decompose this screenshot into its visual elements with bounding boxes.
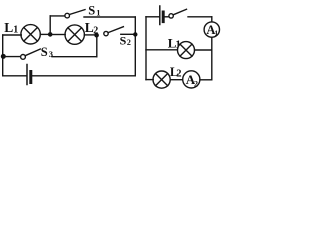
battery short plate (left circuit) — [29, 72, 32, 83]
label S3 — [41, 45, 53, 59]
svg-text:S: S — [41, 45, 48, 59]
wire: lamp L1 to right vertical — [195, 49, 212, 51]
wire: riser J1 up to top wire — [49, 16, 51, 35]
svg-text:1: 1 — [214, 28, 218, 37]
wire: L1 row from left edge to lamp L1 — [3, 34, 22, 36]
wire: left edge dot to S3 pivot — [3, 56, 20, 58]
switch S3 pivot — [21, 55, 26, 60]
lamp L2 — [65, 25, 84, 44]
switch S2 pivot — [104, 31, 108, 35]
label L2 — [85, 20, 98, 36]
node: S3 tap on left edge (junction dot) — [1, 54, 6, 59]
svg-text:2: 2 — [176, 68, 181, 79]
switch S3 blade — [25, 49, 40, 56]
label S2 — [120, 33, 131, 47]
wire: S3 to drop of J2 — [52, 56, 97, 58]
battery long plate (left circuit) — [26, 65, 28, 85]
wire: A1 down to L1 row — [211, 37, 213, 49]
wire: lamp L1 to node J1 — [40, 33, 49, 35]
label L2 (right circuit) — [170, 65, 182, 80]
svg-text:S: S — [120, 33, 127, 47]
wire: drop from node J2 down to S3 wire — [96, 35, 98, 57]
svg-text:1: 1 — [13, 24, 18, 35]
ammeter A2 — [183, 71, 200, 89]
lamp L1 — [21, 25, 40, 44]
lamp L1 (right circuit) — [178, 42, 195, 59]
switch S2 blade — [108, 27, 123, 33]
switch S pivot (right circuit) — [169, 14, 173, 18]
wire: node J1 to lamp L2 — [52, 34, 66, 36]
node: S2 stub to right edge (junction dot) — [133, 32, 137, 36]
battery long plate (right circuit) — [159, 6, 161, 25]
label L1 — [4, 20, 18, 36]
label L1 (right circuit) — [168, 35, 181, 50]
svg-text:1: 1 — [96, 8, 100, 18]
switch S1 blade — [69, 10, 85, 15]
wire: left edge of left circuit — [2, 35, 4, 76]
wire: L1 row from left edge to lamp — [146, 49, 177, 51]
wire: battery to switch S — [165, 16, 169, 18]
wire: stub down to ammeter A1 — [211, 17, 213, 22]
wire: ammeter A2 to bottom-right corner — [200, 79, 212, 81]
switch S2 fixed contact stub — [121, 33, 134, 35]
lamp L2 (right circuit) — [153, 71, 170, 88]
wire: bottom wire right of battery — [33, 75, 136, 77]
wire: bottom wire left of battery — [3, 75, 26, 77]
wire: bottom row from left edge to lamp L2 — [146, 79, 153, 81]
switch S blade (right circuit) — [173, 9, 186, 15]
label S1 — [88, 4, 100, 18]
wire: switch to top-right corner — [188, 16, 212, 18]
svg-text:S: S — [88, 4, 95, 18]
wire: lamp L2 to ammeter A2 — [170, 79, 183, 81]
wire: top wire after S1 to right edge — [84, 16, 135, 18]
wire: right edge of left circuit — [134, 17, 136, 76]
wire: right vertical from L1 row down to bottom row — [211, 50, 213, 80]
svg-text:2: 2 — [127, 38, 131, 47]
wire: lamp L2 to node J2 — [84, 34, 95, 36]
node J2 (junction dot) — [94, 33, 99, 38]
wire: left edge of right circuit — [145, 17, 147, 80]
wire: top wire to switch S1 — [50, 15, 65, 17]
switch S1 pivot — [65, 13, 70, 18]
ammeter A1 — [204, 22, 219, 38]
battery short plate (right circuit) — [162, 12, 165, 22]
svg-text:2: 2 — [194, 79, 198, 88]
svg-text:L: L — [4, 20, 13, 35]
wire: top wire to battery — [146, 16, 159, 18]
node J1 (junction dot) — [48, 32, 53, 37]
